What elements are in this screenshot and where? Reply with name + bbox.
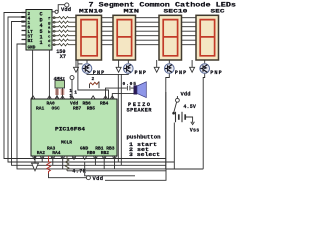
svg-text:RA1: RA1 [36, 106, 45, 112]
label U1 CD4511 vertical [39, 12, 42, 47]
wire U2 bottom pin stubs [33, 156, 117, 169]
svg-text:4.5V: 4.5V [183, 104, 196, 110]
svg-text:SEC10: SEC10 [164, 7, 189, 14]
svg-text:MIN10: MIN10 [79, 7, 104, 14]
wire U1 left pin stubs [22, 13, 27, 45]
svg-text:RB5: RB5 [87, 106, 96, 112]
capacitor C3 0.05 speaker [106, 81, 137, 99]
wire Vdd terminal to U1 pin16 [52, 5, 65, 12]
wire battery plus lead [185, 117, 194, 125]
svg-text:SEC: SEC [211, 7, 226, 14]
svg-text:X7: X7 [60, 54, 66, 60]
svg-text:2: 2 [92, 76, 95, 82]
svg-text:4.7K: 4.7K [72, 168, 86, 174]
pin labels U2 bottom rows [37, 140, 115, 157]
transistor Q1 PNP [82, 60, 104, 76]
wire DS1 cathode sense [78, 60, 109, 99]
wire rail to PIC right column A [117, 74, 119, 162]
display DS3 SEC10 [159, 15, 182, 60]
wire bottom ground rail [166, 168, 203, 170]
svg-text:RB7: RB7 [73, 106, 82, 112]
ground arrow under DS4 [190, 60, 195, 72]
speaker LS1 piezo [134, 82, 147, 98]
crystal X1 4MHz [54, 76, 66, 99]
transistor Q4 PNP [200, 60, 222, 76]
svg-text:PNP: PNP [135, 70, 147, 76]
capacitor C2 osc [61, 90, 65, 94]
ground arrow under U2 [32, 156, 39, 171]
ground arrow under DS2 [116, 60, 121, 72]
node junction dots U1 pins 2 3 [21, 16, 24, 18]
wire battery minus column [173, 123, 175, 170]
svg-text:3 select: 3 select [129, 152, 160, 158]
svg-text:RB0: RB0 [87, 150, 96, 156]
svg-text:MIN: MIN [124, 7, 140, 14]
transistor Q3 PNP [165, 60, 187, 76]
display DS4 SEC [196, 15, 219, 60]
wire U1 strobe to PIC RA1 [48, 50, 50, 99]
wire Q3 collector down [166, 74, 170, 169]
node pin junction circles on resistor rows [53, 17, 55, 46]
svg-text:1: 1 [69, 88, 72, 94]
IC U2 PIC16F84 microcontroller [31, 99, 117, 156]
svg-text:PNP: PNP [93, 70, 105, 76]
svg-text:RB2: RB2 [101, 150, 110, 156]
svg-text:PNP: PNP [210, 70, 222, 76]
svg-text:pushbutton: pushbutton [127, 135, 161, 141]
wire bus U1 to PIC RB0 (left loop outermost) [4, 13, 166, 159]
pin labels U2 top row [36, 101, 109, 112]
wire Q1 base jog [78, 63, 83, 65]
svg-text:Vdd: Vdd [61, 7, 71, 13]
svg-text:SPEAKER: SPEAKER [127, 107, 153, 113]
ground arrow under DS3 [154, 60, 159, 72]
pin labels U1 right segment outputs [48, 17, 51, 49]
svg-text:RB4: RB4 [100, 101, 109, 107]
wire Q4 collector down [203, 74, 205, 169]
svg-text:Vdd: Vdd [93, 176, 104, 182]
wire bus U1 to PIC RB3 (bottom rail) [17, 44, 203, 169]
capacitor C1 osc [55, 90, 59, 94]
battery BT1 [174, 112, 186, 122]
display DS1 MIN10 [76, 15, 102, 60]
label pushbutton list [127, 135, 161, 159]
wire speaker bottom lead [112, 94, 134, 99]
wire rail to PIC right column B [120, 74, 122, 165]
svg-text:Vss: Vss [190, 128, 200, 134]
node Vdd top terminal [61, 3, 71, 13]
wire U1 to PIC RA0 [32, 50, 34, 99]
node Vdd bottom terminal [86, 176, 103, 182]
svg-text:PNP: PNP [175, 70, 187, 76]
svg-text:RA2: RA2 [37, 150, 46, 156]
wire bus U1 to PIC RB1 [8, 17, 174, 162]
svg-text:GND: GND [28, 46, 36, 51]
svg-text:OSC: OSC [52, 106, 61, 112]
svg-text:RA4: RA4 [52, 150, 61, 156]
wire MCLR rail [67, 170, 166, 172]
svg-text:Vdd: Vdd [181, 91, 191, 97]
wire segment bus between displays [102, 18, 197, 45]
wire segment bus row e between MIN and SEC10 [136, 44, 160, 46]
wire Q1 Q2 emitter rail [87, 73, 128, 76]
resistor network 150 X7 [52, 17, 76, 46]
node OSC test point [70, 76, 74, 99]
wire bus U1 to PIC RB2 [12, 22, 166, 166]
svg-text:MCLR: MCLR [61, 140, 72, 146]
IC U1 CD4511 BCD-to-7-segment driver [26, 10, 52, 51]
svg-text:1: 1 [74, 90, 77, 96]
svg-text:BI: BI [28, 39, 34, 44]
resistor R pulldown red [47, 156, 50, 174]
svg-text:1: 1 [39, 40, 42, 46]
ground arrow under DS1 [74, 60, 79, 72]
display DS2 MIN [113, 15, 136, 60]
transistor Q2 PNP [124, 60, 147, 76]
resistor R base 2.2K [90, 76, 100, 88]
switch S1 power [172, 96, 179, 114]
pin labels U1 left [28, 12, 36, 51]
wire RB7 column to battery loop [85, 162, 166, 180]
svg-text:PIC16F84: PIC16F84 [55, 127, 85, 133]
resistor R1 4.7K MCLR pullup [65, 156, 85, 174]
wire U2 top pin stubs [31, 96, 114, 99]
node junction at U1 Vdd pin [55, 10, 58, 13]
wire pushbutton column [165, 92, 167, 169]
